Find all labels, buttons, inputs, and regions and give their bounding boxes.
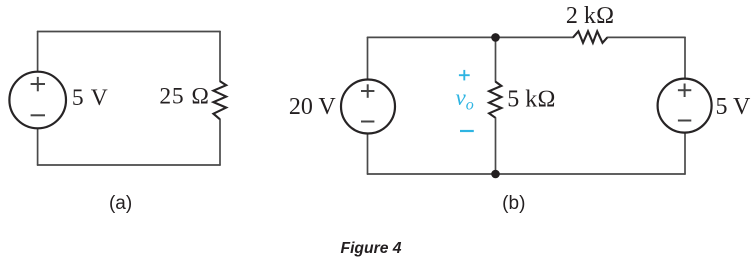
wire: bottom of (b) — [368, 173, 686, 175]
wire: left of (b) — [367, 37, 369, 174]
svg-text:25 Ω: 25 Ω — [159, 84, 210, 110]
wire: right top of (a) — [219, 32, 221, 82]
minus sign in 20V source — [361, 121, 374, 123]
svg-text:Figure 4: Figure 4 — [340, 240, 401, 257]
plus sign in 5V (b) source — [678, 84, 691, 98]
wire: middle branch top — [495, 37, 497, 81]
svg-text:vo: vo — [456, 85, 474, 114]
resistor 2 kohm zigzag — [573, 31, 607, 43]
voltage source V1 5V circle — [9, 72, 66, 129]
svg-text:5 V: 5 V — [72, 85, 109, 111]
resistor 5 kohm zigzag — [489, 82, 501, 118]
circuit (a) — [38, 32, 220, 166]
wire: right bottom of (a) — [219, 119, 221, 165]
resistor R 25 ohm zigzag — [213, 81, 226, 119]
wire: left of (a) — [37, 32, 39, 166]
junction node bottom — [491, 170, 500, 179]
circuit (b) — [368, 37, 686, 174]
cyan minus polarity mark — [460, 130, 474, 132]
minus sign in 5V (b) source — [678, 120, 691, 122]
svg-text:5 kΩ: 5 kΩ — [507, 86, 555, 112]
wire: bottom of (a) — [38, 164, 220, 166]
junction node top — [491, 33, 500, 42]
svg-text:(b): (b) — [502, 193, 525, 214]
wire: middle branch bottom — [495, 118, 497, 174]
wire: top-left of (b) — [368, 36, 574, 38]
svg-text:(a): (a) — [109, 193, 132, 214]
svg-text:20 V: 20 V — [289, 94, 337, 120]
cyan plus polarity mark — [459, 70, 470, 81]
plus sign in 20V source — [361, 84, 374, 98]
wire: right of (b) — [684, 37, 686, 174]
voltage source 20V circle — [341, 80, 395, 134]
wire: top-right of (b) — [607, 36, 685, 38]
svg-text:5 V: 5 V — [715, 94, 751, 120]
wire: top of (a) — [38, 31, 220, 33]
voltage source 5V (b) circle — [658, 79, 712, 133]
minus sign in V1 — [31, 114, 45, 116]
svg-text:2 kΩ: 2 kΩ — [566, 3, 614, 29]
plus sign in V1 — [31, 77, 45, 91]
